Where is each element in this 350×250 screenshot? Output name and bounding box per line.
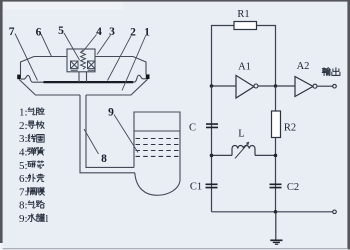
magnetic core rod (part 5) <box>79 72 87 82</box>
leader line 1 <box>122 36 146 91</box>
capacitor C1 <box>206 184 218 187</box>
node between A1 and A2 <box>274 84 278 88</box>
leader line 3 <box>97 35 111 55</box>
node L left <box>210 154 214 158</box>
output terminal circle <box>333 84 337 88</box>
svg-text:A2: A2 <box>297 61 310 72</box>
svg-text:5: 5 <box>58 25 64 37</box>
wire A1 input <box>212 85 237 87</box>
bottom wire <box>212 211 333 213</box>
air duct (part 8) <box>80 95 135 173</box>
wire top loop with R1 <box>212 26 276 87</box>
svg-text:A1: A1 <box>238 62 251 73</box>
svg-text:l: l <box>46 214 49 225</box>
resistor R2 <box>272 111 281 138</box>
svg-text:R1: R1 <box>237 9 249 20</box>
capacitor C <box>206 124 218 127</box>
op-amp A2 <box>295 77 313 97</box>
ground <box>275 212 277 240</box>
svg-text:7: 7 <box>9 26 15 38</box>
capacitor C2 <box>270 184 282 187</box>
resistor R1 <box>234 22 257 30</box>
coil winding right (X box) <box>88 61 96 70</box>
op-amp A1 <box>236 75 254 98</box>
node at A1 input <box>210 84 214 88</box>
svg-text:7:: 7: <box>19 186 28 198</box>
svg-text:C: C <box>189 123 196 134</box>
diaphragm clamp right (black square) <box>146 74 150 79</box>
svg-text:6: 6 <box>36 27 42 39</box>
water surface line <box>134 130 180 132</box>
svg-text:8: 8 <box>101 153 107 165</box>
svg-text:1:: 1: <box>19 107 28 119</box>
inductor L (adjustable) <box>232 146 255 156</box>
svg-text:2:: 2: <box>19 120 28 132</box>
svg-text:R2: R2 <box>284 123 296 134</box>
left rail with capacitor C <box>211 86 213 212</box>
spring (part 4, zigzag) <box>81 50 86 69</box>
svg-text:3:: 3: <box>19 133 28 145</box>
svg-text:9:: 9: <box>19 213 28 225</box>
svg-text:3: 3 <box>109 26 115 38</box>
leader line 9 <box>114 115 138 153</box>
svg-text:2: 2 <box>130 27 136 39</box>
svg-text:9: 9 <box>108 107 114 119</box>
coil bobbin box <box>67 49 95 72</box>
svg-text:6:: 6: <box>19 173 28 185</box>
leader line 5 <box>64 33 80 60</box>
water hatching (dashed) <box>136 138 180 140</box>
svg-text:C2: C2 <box>287 182 299 193</box>
node bottom <box>274 210 278 214</box>
svg-text:L: L <box>238 129 244 140</box>
coil winding left (part 3, X box) <box>71 61 79 70</box>
leader line 2 <box>108 36 132 81</box>
wire A1 out to node <box>258 85 295 87</box>
svg-text:4:: 4: <box>19 147 28 159</box>
water tank (part 9) <box>134 112 180 195</box>
svg-text:1: 1 <box>144 27 150 39</box>
wire L row <box>212 154 276 156</box>
leader line 8 <box>84 129 99 154</box>
right rail <box>275 86 277 212</box>
left seal notch <box>21 75 44 82</box>
output label 输出 <box>322 68 330 76</box>
leader line 7 <box>15 34 38 81</box>
svg-text:4: 4 <box>96 26 102 38</box>
diaphragm clamp left (black square) <box>17 75 21 80</box>
wire to output terminal <box>317 85 333 87</box>
border frame <box>0 0 350 2</box>
right seal notch <box>133 75 146 82</box>
svg-text:8:: 8: <box>19 200 28 212</box>
diaphragm (part 7, thick line) <box>44 81 134 83</box>
leader line 6 <box>41 34 52 57</box>
sensor housing outline (part 6) <box>21 57 147 75</box>
svg-text:5:: 5: <box>19 160 28 172</box>
svg-text:C1: C1 <box>190 182 202 193</box>
bottom terminal circle <box>333 210 337 214</box>
node L right <box>274 154 278 158</box>
housing lower body <box>19 79 147 95</box>
leader line 4 <box>83 35 97 53</box>
